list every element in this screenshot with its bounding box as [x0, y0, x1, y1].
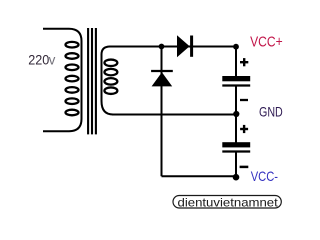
capacitor C1 plus sign	[240, 58, 248, 66]
diode D2 vertical triangle	[152, 72, 173, 86]
capacitor C2 negative plate	[222, 150, 250, 152]
capacitor C2 minus sign	[240, 166, 249, 169]
capacitor C2 positive plate	[222, 142, 250, 147]
wire branch from node A down to bottom rail	[161, 47, 163, 177]
diode D1 horizontal triangle	[177, 35, 190, 57]
capacitor C1 negative plate	[222, 84, 250, 86]
diode D1 cathode bar	[190, 36, 193, 57]
transformer T1 secondary winding loops	[104, 60, 117, 94]
wire GND rail from secondary bottom to GND node	[112, 114, 236, 116]
svg-text:220: 220	[28, 52, 49, 68]
transformer T1 primary lead and frame	[43, 29, 82, 131]
wire C2 to VCC- node	[235, 152, 237, 177]
watermark oval dientuvietnamnet	[173, 196, 281, 209]
wire GND node to C2	[235, 114, 237, 142]
transformer T1 primary winding loops	[66, 42, 79, 115]
svg-text:VCC-: VCC-	[251, 169, 278, 184]
wire bottom rail from branch to VCC- node	[162, 175, 237, 177]
wire C1 to GND node	[235, 86, 237, 114]
svg-text:GND: GND	[259, 104, 283, 120]
node GND dot	[233, 111, 239, 117]
wire top rail from secondary to VCC+ node	[109, 46, 236, 48]
capacitor C1 minus sign	[240, 99, 248, 101]
node VCC- dot	[233, 174, 240, 181]
svg-text:dientuvietnamnet: dientuvietnamnet	[178, 195, 279, 209]
transformer T1 secondary winding frame	[102, 47, 114, 115]
diode D2 cathode bar	[151, 70, 173, 72]
transformer core	[88, 28, 96, 134]
svg-text:VCC+: VCC+	[250, 34, 283, 51]
node VCC+ dot	[233, 44, 239, 50]
capacitor C2 plus sign	[240, 125, 248, 133]
capacitor C1 positive plate	[222, 76, 250, 81]
wire right rail VCC+ node to C1	[235, 47, 237, 77]
node junction A dot	[159, 44, 165, 50]
svg-text:v: v	[49, 53, 56, 68]
